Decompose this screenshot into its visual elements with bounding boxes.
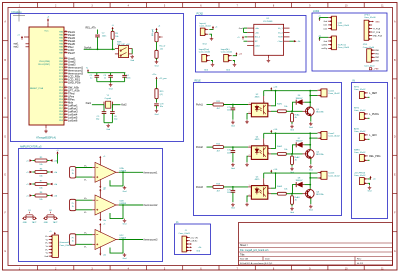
svg-text:Conn_01x02: Conn_01x02 <box>328 93 340 95</box>
svg-text:Id: 1/1: Id: 1/1 <box>357 263 364 265</box>
capacitor C5 <box>102 112 107 114</box>
wire crystal caps bottom join <box>104 122 112 124</box>
resistor R8 <box>35 194 47 197</box>
svg-text:31: 31 <box>65 36 67 38</box>
svg-text:thermocont1: thermocont1 <box>144 171 159 174</box>
group box relay section <box>194 83 342 216</box>
svg-text:thermocont2: thermocont2 <box>144 204 159 207</box>
connector P3 pin labels <box>373 27 383 37</box>
wire feedback ch1 <box>110 172 123 186</box>
svg-text:Gnd: Gnd <box>239 28 243 30</box>
svg-text:13: 13 <box>65 95 67 97</box>
svg-text:Gnd: Gnd <box>155 66 159 68</box>
power GND SW5 <box>368 186 372 193</box>
svg-text:ICL7660S: ICL7660S <box>263 21 273 23</box>
op-amp U2B body <box>95 195 116 215</box>
IC U3 right pin PE1 with net label LwSwt4 <box>59 112 78 116</box>
svg-text:Pled7: Pled7 <box>68 51 75 55</box>
power GND emitter ch2 <box>309 165 313 172</box>
power GND right of SW1 <box>130 55 134 62</box>
svg-text:Rev:: Rev: <box>357 259 362 261</box>
svg-text:TACT: TACT <box>32 221 38 224</box>
potentiometer RV1 <box>155 32 158 42</box>
IC U3 right pin PA2 with net label Pled3 <box>59 36 75 40</box>
capacitor C72 <box>231 151 236 153</box>
svg-text:NU_1: NU_1 <box>255 37 261 39</box>
wire collector vertical ch1 <box>309 91 311 107</box>
wire Th2 to inverting input <box>76 199 93 201</box>
IC U3 right pin PA0 with net label Pled1 <box>59 30 75 34</box>
svg-text:BD139b: BD139b <box>316 194 324 196</box>
IC U3 right pin PA6 with net label LCDr <box>59 48 74 52</box>
junction diode rail ch2 <box>309 132 311 134</box>
wire crystal right leg down <box>111 105 113 112</box>
svg-text:25: 25 <box>65 57 67 59</box>
optocoupler U5 body <box>251 186 267 200</box>
wire +24 rail ch1 <box>264 90 318 92</box>
svg-text:YELL2(PB7): YELL2(PB7) <box>38 64 50 66</box>
power +5 right of Imput connector <box>209 28 213 29</box>
capacitor C71 <box>231 108 236 110</box>
wire XtaI1 to crystal <box>92 104 104 106</box>
switch SW1 DIP body <box>119 46 129 58</box>
switch S2 pushbutton <box>43 215 58 220</box>
wire relay connector pin2 ch3 <box>310 177 317 179</box>
svg-text:+15, ON: +15, ON <box>190 237 198 239</box>
svg-text:15: 15 <box>65 89 67 91</box>
power +5 U1 pin3 <box>245 36 248 38</box>
power +5V above resistor R3 <box>111 25 114 31</box>
junction diode rail ch1 <box>309 90 311 92</box>
wire U1 Vout right <box>290 40 294 42</box>
op-amp output pin ch2 <box>116 204 119 206</box>
transistor Q2 <box>306 149 315 158</box>
svg-text:PCN2: PCN2 <box>197 13 204 16</box>
wire diode right leg ch2 <box>304 144 310 146</box>
svg-text:Conn_01x02: Conn_01x02 <box>354 175 366 177</box>
svg-text:10k: 10k <box>115 36 118 38</box>
svg-text:Conn_01x02: Conn_01x02 <box>199 52 211 54</box>
IC U1 left pins <box>247 28 261 48</box>
optocoupler U5 emitter pin <box>268 193 271 195</box>
resistor R7 <box>35 183 47 186</box>
svg-text:26: 26 <box>65 51 67 53</box>
connector J3 pin net labels <box>44 235 48 258</box>
connector Imput(M-) <box>224 54 229 61</box>
power +24 right of ImputM <box>233 55 237 56</box>
IC U3 right pin PE0 with net label LwRwt3 <box>59 109 78 113</box>
svg-text:VCC: VCC <box>44 31 49 33</box>
svg-text:4k: 4k <box>295 160 297 162</box>
wire opto base to rail ch2 <box>263 133 265 138</box>
svg-text:Gnd: Gnd <box>290 129 294 131</box>
power GND divider ch2 <box>290 167 294 174</box>
diode D8 <box>296 182 304 187</box>
svg-text:ADV1: ADV1 <box>354 128 360 131</box>
svg-text:Conn_01x02: Conn_01x02 <box>354 131 366 133</box>
junction diode collector ch1 <box>309 101 311 103</box>
IC U3 right pin PA3 with net label PledA <box>59 39 75 43</box>
wire R3 bottom to SwAck rail <box>112 39 114 49</box>
svg-text:C: C <box>4 97 6 100</box>
power pin right of R7 <box>50 183 58 186</box>
wire diode left leg ch2 <box>293 145 297 154</box>
wire cap branch ch1 <box>232 105 234 108</box>
wire op-amp V- ch3 <box>99 247 101 254</box>
svg-text:Date:: Date: <box>265 258 271 261</box>
svg-text:LCD2: LCD2 <box>313 10 320 13</box>
svg-text:10: 10 <box>65 104 67 106</box>
wire diode right leg ch3 <box>304 184 310 186</box>
svg-text:100n: 100n <box>227 152 231 154</box>
svg-text:+Vout: +Vout <box>277 40 283 43</box>
svg-text:Imput(Plus): Imput(Plus) <box>199 48 210 51</box>
switch SW1 actuator marks <box>120 48 127 57</box>
svg-text:Conn_01x04: Conn_01x04 <box>338 25 350 27</box>
power +5 right of SW5 <box>368 177 371 180</box>
wire RV1 bottom <box>156 42 158 51</box>
power +24 ch3 <box>270 170 272 174</box>
svg-text:SW_DIP_x02: SW_DIP_x02 <box>117 44 130 46</box>
power -5 op-amp ch2 <box>99 217 101 221</box>
svg-text:10k: 10k <box>284 149 287 151</box>
wire input to resistor R13 <box>207 186 214 188</box>
power +5 op-amp ch2 <box>99 188 101 192</box>
svg-text:swtRst: swtRst <box>322 44 328 47</box>
svg-text:14: 14 <box>65 92 67 94</box>
power +5 op-amp ch3 <box>99 223 101 227</box>
svg-text:100n: 100n <box>126 78 130 80</box>
wire divider down ch3 <box>291 194 293 196</box>
svg-text:Conn_01x06: Conn_01x06 <box>364 17 376 19</box>
wire cap C2 bottom to SwAck rail <box>97 37 99 49</box>
svg-text:RuH3: RuH3 <box>277 186 283 188</box>
power flag J1 pin3 <box>190 243 192 245</box>
junction base divider ch3 <box>291 193 293 195</box>
power GND feedback ch3 <box>123 253 127 260</box>
resistor RsA2 <box>291 156 294 164</box>
wire cap to ground ch1 <box>232 110 234 120</box>
svg-text:GND_PCA: GND_PCA <box>373 34 383 37</box>
power +15V top of RV1 <box>156 28 158 32</box>
group box power input section <box>196 16 307 73</box>
wire R19 to C8 <box>156 99 158 103</box>
wire cap to ground ch2 <box>232 153 234 163</box>
svg-text:Conn_01x02: Conn_01x02 <box>328 175 340 177</box>
power +5 J1 pin4 <box>190 247 192 249</box>
wire +5 rail vertical <box>57 154 59 164</box>
svg-text:Title:: Title: <box>240 253 245 256</box>
wire opto emitter to resistor ch1 <box>271 110 278 112</box>
connector P4 <box>367 49 372 62</box>
wire rail to opto collector ch2 <box>271 133 276 148</box>
svg-text:(thermost1): (thermost1) <box>60 241 71 244</box>
svg-text:RELE: RELE <box>195 80 202 83</box>
wire SWE1 pin2 stub <box>368 159 370 161</box>
wire feedback ch3 <box>110 240 123 254</box>
op-amp U2A body <box>95 162 116 182</box>
junction diode collector ch3 <box>309 184 311 186</box>
optocoupler U4 cathode pin <box>248 155 251 157</box>
op-amp U2B input pin stubs <box>92 200 95 210</box>
IC U3 GND pin bottom <box>45 125 47 129</box>
title block row lines <box>239 243 393 265</box>
wire opto base to rail ch1 <box>263 91 265 96</box>
connector Imput(Plus) <box>202 54 207 61</box>
IC U3 right pin PD0 with net label SW_ASb <box>59 85 79 89</box>
wire SW5 pin2 to ground <box>368 183 370 185</box>
svg-text:File: mega8_pcb_board.sch: File: mega8_pcb_board.sch <box>240 249 269 252</box>
svg-text:REL_ATb: REL_ATb <box>86 27 97 30</box>
svg-text:RuH2: RuH2 <box>277 146 283 148</box>
svg-text:BD139b: BD139b <box>316 112 324 114</box>
junction feedback ch2 <box>122 204 124 206</box>
wire ADV1 pin2 stub <box>368 138 370 140</box>
IC U3 right pin PE3 with net label LwSwt6 <box>59 118 78 122</box>
svg-text:5: 5 <box>65 119 66 121</box>
IC U1 GND pin bottom <box>267 55 269 58</box>
wire R7 right <box>47 183 50 185</box>
svg-text:Conn_01x02: Conn_01x02 <box>354 152 366 154</box>
svg-text:4k: 4k <box>295 199 297 201</box>
svg-text:ImcPcm1: ImcPcm1 <box>338 45 347 47</box>
power +24 ch1 <box>270 87 272 91</box>
svg-text:10k: 10k <box>284 106 287 108</box>
svg-text:Gnd: Gnd <box>231 125 235 127</box>
connector P2 prog <box>332 36 337 50</box>
svg-text:+24i: +24i <box>273 129 277 131</box>
svg-text:6: 6 <box>264 184 265 186</box>
wire opto cathode to ground ch3 <box>247 196 248 202</box>
svg-text:6: 6 <box>264 144 265 146</box>
power pin right of R6 <box>50 171 58 174</box>
svg-text:swtPrg: swtPrg <box>321 47 327 50</box>
IC U3 right pin PA5 with net label Pber <box>59 45 74 49</box>
optocoupler U2 body <box>251 103 267 117</box>
connector J3 thermostat <box>52 235 58 257</box>
svg-text:Gnd: Gnd <box>44 256 48 258</box>
power +5 above P2 connector <box>319 37 321 41</box>
svg-text:Gnd: Gnd <box>123 191 127 193</box>
IC U3 right pin PD4 with net label RPes <box>59 97 75 101</box>
capacitor C8 <box>154 104 159 106</box>
connector KEY1 <box>360 92 365 99</box>
svg-text:Conn_01x02: Conn_01x02 <box>328 136 340 138</box>
svg-text:32: 32 <box>65 33 67 35</box>
svg-text:Tu: Tu <box>86 68 88 70</box>
wire output ch1 <box>119 171 143 173</box>
svg-text:21: 21 <box>65 69 67 71</box>
wire RsA1 to ground <box>291 122 293 124</box>
transistor Q2 base pin <box>303 153 308 155</box>
svg-text:11: 11 <box>65 101 67 103</box>
svg-text:XtaI2: XtaI2 <box>121 104 127 107</box>
svg-text:1u: 1u <box>90 78 92 80</box>
svg-text:(-1): (-1) <box>160 94 163 96</box>
wire Th1 to inverting input <box>76 167 93 169</box>
junction diode collector ch2 <box>309 144 311 146</box>
wire +15 to RV1 <box>156 31 158 33</box>
svg-text:Gnd: Gnd <box>309 209 313 211</box>
wire diode left leg ch1 <box>293 102 297 111</box>
power +5 above P1 connector <box>319 17 321 21</box>
power VCC arrow left of C1 <box>87 69 89 73</box>
wire decoupling bottom rail <box>97 81 125 83</box>
svg-text:27: 27 <box>65 48 67 50</box>
wire cap C2 top <box>97 30 99 35</box>
power GND opto input ch3 <box>245 202 249 206</box>
svg-text:REL_PRG: REL_PRG <box>369 155 380 158</box>
svg-text:G: G <box>394 250 396 253</box>
wire Imput pin2 to ground <box>209 34 211 37</box>
svg-text:Vt-: Vt- <box>84 246 87 249</box>
thermistor Th1 <box>70 167 76 178</box>
optocoupler U2 internals <box>255 105 266 115</box>
title block outline <box>239 223 393 266</box>
wire output ch3 <box>119 239 143 241</box>
power GND below R18 <box>155 60 159 68</box>
optocoupler U4 emitter pin <box>268 153 271 155</box>
wire op-amp V- ch2 <box>99 212 101 219</box>
wire KEY2 pin2 stub <box>368 117 370 119</box>
optocoupler U4 body <box>251 146 267 160</box>
wire R3 top <box>112 30 114 32</box>
power +5V at IC top <box>47 17 50 23</box>
IC U3 ATmega body <box>29 27 64 125</box>
svg-text:RESET_PCA: RESET_PCA <box>30 87 44 90</box>
IC U3 right pin PE2 with net label LwSwt5 <box>59 115 78 119</box>
IC U3 right pin PC2 with net label thermocont3 <box>59 71 83 75</box>
wire C8 to ground <box>156 106 158 109</box>
svg-text:Conn_01x04: Conn_01x04 <box>338 47 350 49</box>
svg-text:24: 24 <box>65 60 67 62</box>
connector Conn2 <box>321 132 327 140</box>
wire op-amp V- ch1 <box>99 179 101 186</box>
IC U1 right pins <box>277 28 289 43</box>
IC U3 left pin RESET +5V <box>24 36 29 38</box>
optocoupler U2 emitter pin <box>268 110 271 112</box>
svg-text:D: D <box>394 135 396 138</box>
svg-text:swt2: swt2 <box>323 27 327 30</box>
optocoupler U2 pin number marks <box>249 102 270 114</box>
capacitor C2 <box>95 35 100 37</box>
wire cap branch ch3 <box>232 187 234 190</box>
svg-text:(R.Lgw): (R.Lgw) <box>152 29 154 36</box>
optocoupler U5 internals <box>255 187 266 197</box>
op-amp U2A input pin stubs <box>92 168 95 178</box>
connector P1 LED <box>332 16 337 30</box>
transistor Q1 <box>306 107 315 116</box>
junction diode rail ch3 <box>309 172 311 174</box>
crystal Y1 <box>104 101 112 108</box>
capacitor C3 <box>110 73 112 76</box>
svg-text:TACT: TACT <box>53 221 59 224</box>
op-amp output pin ch1 <box>116 171 119 173</box>
optocoupler U2 cathode pin <box>248 113 251 115</box>
IC U3 right pin PB2 with net label Lbad3 <box>59 62 76 66</box>
IC U3 right pin PD7 with net label LwRwt2 <box>59 106 78 110</box>
IC U3 right pin PD3 with net label LPes <box>59 94 75 98</box>
IC U3 right pin PD5 with net label Mds <box>59 100 74 104</box>
svg-text:19: 19 <box>65 75 67 77</box>
junction feedback ch1 <box>122 171 124 173</box>
wire RuH1 to base node <box>286 110 302 112</box>
svg-text:Conn_01x07: Conn_01x07 <box>60 245 72 247</box>
svg-text:PB9: PB9 <box>375 61 379 63</box>
wire collector vertical ch3 <box>309 173 311 189</box>
optocoupler U4 input pin <box>248 146 251 148</box>
wire rail to opto collector ch3 <box>271 173 276 188</box>
svg-text:30: 30 <box>65 39 67 41</box>
wire resistor R11 to optocoupler <box>224 104 249 106</box>
svg-text:YELL(PB6): YELL(PB6) <box>39 61 50 63</box>
svg-text:10k: 10k <box>284 189 287 191</box>
svg-text:GND: GND <box>23 222 28 224</box>
resistor R6 <box>35 171 47 174</box>
connector SWE1 <box>360 155 365 162</box>
wire input to resistor R11 <box>207 104 214 106</box>
power GND feedback ch1 <box>123 186 127 193</box>
power GND cap ch1 <box>231 120 235 127</box>
power GND emitter ch1 <box>309 122 313 129</box>
svg-text:Gnd: Gnd <box>196 251 200 253</box>
svg-text:6: 6 <box>65 116 66 118</box>
power +5 above connector J3 <box>54 232 56 236</box>
svg-text:LPTe1: LPTe1 <box>364 14 371 16</box>
op-amp U2C body <box>95 230 116 250</box>
junction rail collector ch3 <box>275 172 277 174</box>
optocoupler U5 input pin <box>248 186 251 188</box>
junction base divider ch2 <box>291 153 293 155</box>
svg-text:-/nbd: -/nbd <box>255 45 260 47</box>
connector Conn1 <box>321 89 327 97</box>
power -5 output arrow <box>294 40 297 42</box>
power +5 left of R8 <box>26 194 32 197</box>
svg-text:+15s: +15s <box>152 74 156 76</box>
svg-text:IN: IN <box>353 80 356 83</box>
svg-text:SwAck: SwAck <box>84 46 92 49</box>
svg-text:Gnd: Gnd <box>324 21 328 23</box>
wire op-amp V+ ch2 <box>99 191 101 198</box>
wire divider down ch2 <box>291 154 293 156</box>
svg-text:+24i: +24i <box>273 87 277 89</box>
resistor R3 pullup <box>111 31 114 39</box>
svg-text:swt1: swt1 <box>323 24 327 27</box>
wire R5 right <box>47 160 50 162</box>
svg-text:L_PB9: L_PB9 <box>372 69 379 71</box>
svg-text:RuH1: RuH1 <box>277 104 283 106</box>
svg-text:+4.8,Nu: +4.8,Nu <box>190 241 197 243</box>
svg-text:Vt-: Vt- <box>84 178 87 181</box>
resistor R5 <box>35 159 47 162</box>
power GND below IC <box>44 129 48 133</box>
wire crystal left leg down <box>103 105 105 112</box>
svg-text:LwSwt6: LwSwt6 <box>68 118 78 122</box>
wire emitter to ground ch3 <box>310 198 312 204</box>
junction SwAck-R3 <box>112 48 114 50</box>
svg-text:+24i: +24i <box>273 169 277 171</box>
wire SW1 right to ground <box>131 48 133 54</box>
optocoupler U4 collector pin <box>268 147 271 149</box>
junction input cap ch2 <box>232 146 234 148</box>
wire RuH2 to base node <box>286 153 302 155</box>
optocoupler U4 base pin top <box>263 139 265 146</box>
svg-text:100n: 100n <box>227 110 231 112</box>
frame row ticks sides <box>3 41 398 232</box>
power GND opto input ch2 <box>245 163 249 167</box>
wire RuH3 to base node <box>286 193 302 195</box>
wire crystal to XtaI2 <box>112 104 120 106</box>
